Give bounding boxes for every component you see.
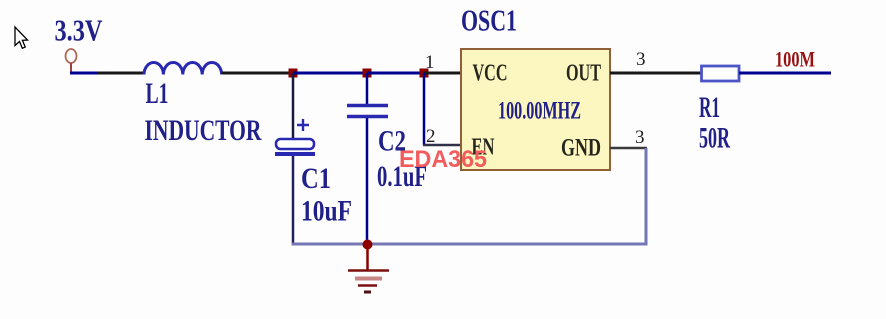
svg-text:GND: GND [561, 135, 601, 162]
svg-text:VCC: VCC [473, 61, 508, 87]
node C junction [420, 69, 429, 78]
ground node junction [363, 240, 373, 250]
wire C1 to bottom rail [292, 156, 295, 246]
wire node A down to C1 [292, 73, 295, 139]
svg-text:100.00MHZ: 100.00MHZ [498, 98, 581, 125]
svg-text:C1: C1 [301, 162, 331, 195]
capacitor C1 top electrode [276, 139, 314, 149]
terminal stem wire [70, 63, 72, 73]
svg-text:50R: 50R [699, 122, 730, 155]
wire node B to node C [367, 72, 424, 75]
wire OUT pin to resistor [610, 72, 701, 75]
svg-text:100M: 100M [775, 47, 815, 72]
mouse cursor [15, 27, 28, 48]
svg-text:OUT: OUT [566, 61, 601, 87]
svg-text:OSC1: OSC1 [461, 3, 517, 38]
inductor L1 [144, 62, 222, 74]
wire node C down to EN pin 2 [423, 73, 426, 145]
wire terminal to inductor [70, 72, 98, 75]
capacitor C2 bottom plate [347, 115, 388, 119]
ground bar 4 [364, 291, 371, 294]
svg-text:3: 3 [636, 49, 646, 70]
wire node B down to C2 [366, 73, 369, 104]
capacitor C1 plus sign [297, 119, 309, 131]
wire node A to node B [293, 72, 367, 75]
wire resistor to 100M [739, 72, 831, 75]
svg-text:10uF: 10uF [301, 195, 352, 228]
svg-text:INDUCTOR: INDUCTOR [145, 114, 262, 147]
svg-text:3: 3 [635, 127, 645, 148]
resistor R1 body [702, 66, 740, 81]
ground stem [366, 244, 369, 270]
oscillator U1 body [461, 49, 610, 170]
capacitor C1 bottom electrode [275, 152, 315, 156]
ground bar 3 [358, 284, 377, 287]
ground bar 1 [348, 269, 389, 272]
svg-text:2: 2 [426, 126, 436, 147]
ground bar 2 [355, 277, 382, 281]
svg-text:L1: L1 [146, 77, 169, 110]
wire C2 to bottom rail [366, 118, 369, 244]
node A junction [289, 69, 298, 78]
svg-text:1: 1 [425, 52, 435, 73]
wire node C to VCC pin 1 [424, 72, 461, 75]
power terminal circle [66, 49, 77, 63]
wire inductor to node A [222, 72, 293, 75]
capacitor C2 top plate [347, 104, 388, 108]
wire GND pin to right drop [610, 147, 647, 150]
node B junction [363, 69, 372, 78]
svg-text:EDA365: EDA365 [399, 146, 487, 173]
wire right drop down [645, 148, 648, 246]
svg-text:3.3V: 3.3V [55, 13, 103, 48]
bottom ground rail [292, 243, 647, 246]
svg-text:R1: R1 [699, 91, 720, 124]
